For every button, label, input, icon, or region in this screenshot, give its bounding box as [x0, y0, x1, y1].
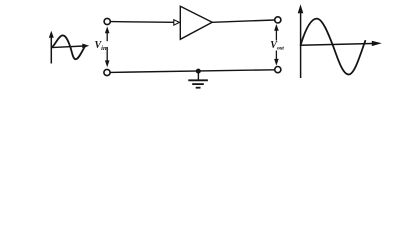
Vout measurement up arrow: [275, 31, 277, 41]
output waveform vertical axis: [300, 12, 302, 78]
terminal circle top-right: [275, 17, 281, 23]
output sine wave: [301, 19, 366, 75]
Vout measurement down arrow: [275, 51, 277, 60]
Vin measurement up arrow: [106, 33, 108, 42]
input waveform horizontal axis: [51, 46, 83, 48]
input waveform vertical axis: [50, 37, 52, 64]
terminal circle top-left: [104, 18, 110, 24]
input waveform horizontal axis arrowhead: [82, 44, 89, 49]
input sine wave: [52, 35, 85, 59]
wire: bottom rail: [110, 70, 275, 73]
input waveform vertical axis arrowhead: [49, 31, 54, 38]
wire: amplifier output to top-right terminal: [212, 20, 275, 22]
op-amp U1 (amplifier triangle): [180, 6, 212, 39]
output waveform horizontal axis: [300, 44, 372, 46]
terminal circle bottom-left: [104, 69, 110, 75]
ground: [188, 71, 208, 88]
Vin measurement down arrow: [106, 47, 108, 61]
wire: top-left terminal to amplifier input: [111, 21, 175, 24]
terminal circle bottom-right: [275, 67, 281, 73]
output waveform vertical axis arrowhead: [298, 4, 304, 13]
output waveform horizontal axis arrowhead: [372, 41, 382, 46]
junction dot on bottom rail: [196, 69, 201, 74]
amplifier input arrowhead (open): [174, 20, 180, 25]
